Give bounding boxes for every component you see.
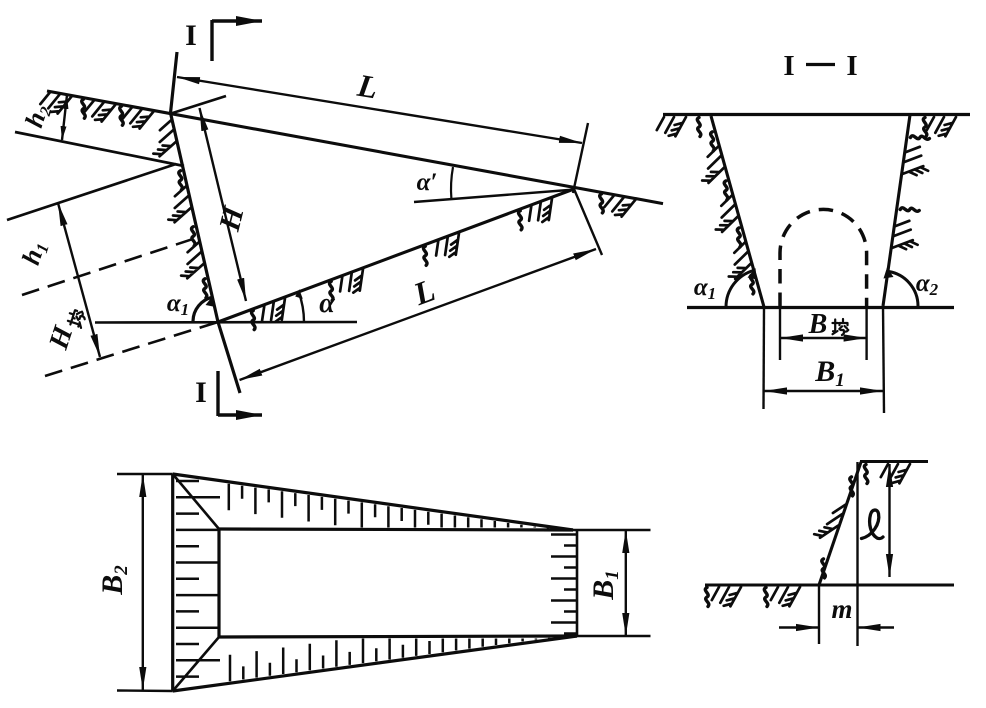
- hatch below top line (right): [927, 117, 956, 136]
- arc angle alpha1: [193, 297, 212, 321]
- hatch left of section line: [153, 120, 203, 278]
- outer left edge: [171, 474, 174, 691]
- crest vertical extension: [856, 462, 858, 646]
- hatch on left slope: [702, 146, 751, 279]
- extension line at convergence (lower): [574, 189, 602, 255]
- right cut slope: [883, 115, 910, 306]
- section line I-I: [171, 52, 241, 393]
- hatch below ground line A (right): [604, 196, 635, 217]
- dimension line B1: [764, 390, 883, 392]
- svg-text:I: I: [783, 50, 794, 82]
- left cut slope: [711, 116, 764, 307]
- dimension m right arrow: [858, 626, 895, 628]
- inner left edge: [217, 529, 220, 637]
- dimension m left arrow: [779, 626, 819, 628]
- svg-text:I: I: [195, 376, 207, 409]
- svg-text:α: α: [319, 288, 335, 319]
- dimension line H: [200, 108, 247, 301]
- hatch on right slope: [892, 147, 928, 249]
- section mark bracket bottom (vertical): [216, 371, 219, 416]
- svg-text:B: B: [808, 309, 828, 340]
- outer top edge: [173, 474, 573, 530]
- portal face (right edge): [576, 530, 579, 636]
- label H-wa (excavation depth): [43, 303, 87, 354]
- horizontal reference line at toe: [95, 321, 357, 324]
- section mark bracket top (vertical): [210, 20, 213, 61]
- section mark arrow top: [212, 19, 262, 22]
- B2 extension top: [117, 473, 173, 475]
- upper ground line: [860, 460, 928, 463]
- excavation floor line: [687, 306, 954, 309]
- arc angle alpha-prime: [451, 167, 453, 199]
- corner diagonal bottom: [173, 637, 219, 691]
- svg-text:α′: α′: [417, 169, 438, 196]
- corner diagonal top: [173, 474, 219, 529]
- label h1: [16, 237, 53, 268]
- dashed tunnel profile: [780, 209, 867, 307]
- svg-text:m: m: [831, 594, 852, 624]
- section mark arrow bottom: [218, 413, 262, 416]
- dimension line L (upper): [177, 77, 582, 143]
- inner bottom edge: [219, 636, 577, 637]
- upper hill surface line B: [15, 132, 184, 166]
- slope hatch ticks: bottom band: [230, 636, 563, 681]
- alpha-prime ray: [414, 190, 575, 203]
- cut top edge (lintel): [171, 96, 226, 114]
- hatch below cut slope line: [262, 198, 552, 321]
- ground surface (top line): [663, 113, 970, 116]
- dimension line L (lower): [240, 249, 597, 380]
- arc angle alpha1: [726, 270, 754, 307]
- lower ground line: [705, 583, 954, 586]
- slope hatch ticks: left band: [176, 481, 220, 677]
- svg-text:I: I: [846, 50, 857, 82]
- dashed tunnel crown level E: [22, 237, 199, 295]
- left toe extension line: [762, 307, 765, 409]
- tunnel left wall extension: [779, 307, 781, 360]
- cut slope line (toe to convergence): [218, 189, 574, 322]
- svg-text:I: I: [185, 19, 197, 52]
- hatch below lower ground line: [712, 587, 800, 606]
- extension line at convergence (upper): [573, 123, 588, 193]
- label h2: [19, 101, 55, 132]
- slope hatch ticks: portal face band: [551, 535, 577, 634]
- tunnel right wall extension: [865, 307, 867, 360]
- B2 extension bottom: [117, 689, 173, 692]
- right toe extension line: [883, 306, 884, 413]
- toe vertical extension: [818, 585, 820, 644]
- label B1 (plan): [587, 570, 623, 601]
- outer bottom edge: [173, 636, 577, 691]
- slope hatch ticks: top band: [229, 484, 562, 531]
- hatch below ground line A (left): [40, 93, 153, 129]
- hatch on slope face: [814, 505, 845, 538]
- inner top edge: [219, 529, 573, 530]
- right bottom extension: [577, 635, 651, 638]
- ground surface line A: [47, 91, 663, 204]
- dimension line h2: [62, 95, 67, 140]
- arc angle alpha: [299, 292, 304, 322]
- hatch below upper ground line: [881, 464, 910, 483]
- dimension line B2: [142, 474, 144, 690]
- lower hill surface line C: [7, 164, 176, 220]
- dimension line l: [888, 464, 890, 577]
- dashed tunnel invert level F: [45, 322, 218, 376]
- label l (script ell): [862, 510, 884, 538]
- slope face line: [819, 462, 861, 585]
- right top extension: [573, 529, 651, 532]
- dimension line B-wa: [780, 337, 867, 339]
- dimension line B1 (plan): [625, 530, 627, 636]
- hatch below top line (left): [657, 117, 686, 136]
- label B2: [96, 565, 132, 596]
- dimension line h1 / H-wa: [58, 203, 100, 357]
- arc angle alpha2: [888, 271, 918, 306]
